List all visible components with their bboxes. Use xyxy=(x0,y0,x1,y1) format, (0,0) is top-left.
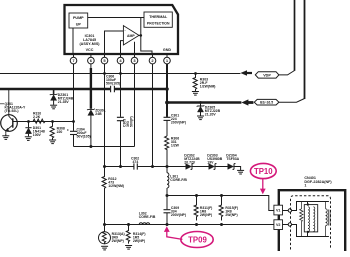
svg-text:V1: V1 xyxy=(276,209,281,213)
resistor R313 circled safety xyxy=(99,225,111,245)
resistor R308 xyxy=(50,122,54,140)
IC301 value label xyxy=(79,34,100,46)
C302 label xyxy=(131,156,139,164)
C304 label xyxy=(77,128,91,139)
svg-text:100V: 100V xyxy=(33,133,42,137)
svg-text:2W(NP): 2W(NP) xyxy=(112,239,124,243)
wire pin1 thick down xyxy=(166,64,168,103)
svg-text:50V(105): 50V(105) xyxy=(106,82,120,86)
test point TP09 xyxy=(181,232,213,248)
svg-text:21.35V: 21.35V xyxy=(58,100,70,104)
inductor L302 on wire224 xyxy=(139,223,150,225)
svg-text:200V(NP): 200V(NP) xyxy=(171,213,186,217)
capacitor C309 xyxy=(164,196,171,225)
wire y=224.5 node V2 net xyxy=(105,224,274,226)
Q301 label xyxy=(0,102,26,113)
svg-text:VDP: VDP xyxy=(263,73,271,77)
R303 label xyxy=(200,78,216,89)
DZ301 label xyxy=(58,93,74,104)
yoke right coil xyxy=(326,209,328,226)
pin 3 circle xyxy=(131,54,138,68)
C309 label xyxy=(171,206,186,217)
flag B1/-16.5 xyxy=(254,99,279,105)
junction L301/wire195 xyxy=(166,194,169,197)
svg-text:CORE-F/B: CORE-F/B xyxy=(139,215,156,219)
svg-text:V2: V2 xyxy=(276,223,281,227)
junction R314/wire224 xyxy=(127,223,130,226)
junction R306-L301/wire166 xyxy=(166,165,169,168)
capacitor C306 plates xyxy=(111,86,115,92)
svg-text:TP09: TP09 xyxy=(188,236,207,245)
wire Q301 collector up to rail xyxy=(8,89,10,115)
wire pin6 thick down xyxy=(90,68,92,89)
ground R313 xyxy=(101,246,108,250)
svg-text:GND: GND xyxy=(163,48,172,52)
wire pin2 down xyxy=(152,68,154,167)
capacitor C303 on pin4 line xyxy=(117,117,124,120)
DZ304 label xyxy=(226,154,239,162)
flag VDP xyxy=(255,72,279,78)
connector pin V2 xyxy=(274,220,283,230)
junction yoke rect bottom xyxy=(307,231,309,233)
ZD301 label xyxy=(95,109,105,117)
wire pin5 to amp inverting input xyxy=(105,31,124,54)
wire y=195 node V1 net xyxy=(167,196,274,211)
ground R308 xyxy=(49,140,56,144)
R314 label xyxy=(133,232,146,243)
svg-text:(TO-92L): (TO-92L) xyxy=(5,109,19,113)
capacitor C301 on pin1 chain xyxy=(164,103,171,137)
junction base/pin7 xyxy=(72,120,75,123)
capacitor C304 on pin7 line xyxy=(67,122,77,147)
test point TP10 xyxy=(250,163,276,178)
svg-text:1: 1 xyxy=(304,184,306,188)
wire pin4 down xyxy=(120,68,122,167)
capacitor C306 label xyxy=(106,75,120,86)
yoke coil left column xyxy=(308,207,310,232)
yoke damping resistor xyxy=(300,202,303,237)
resistor R315 xyxy=(219,196,223,221)
svg-text:B1/-16.5: B1/-16.5 xyxy=(260,101,273,105)
pin 6 circle xyxy=(88,54,95,68)
D301 label xyxy=(33,126,45,137)
junction pin1 / B1 rail xyxy=(165,101,169,105)
svg-text:-: - xyxy=(125,29,126,33)
arrow to B1 xyxy=(241,99,253,105)
thick rail y=89 right part xyxy=(114,88,167,91)
ground R314 xyxy=(125,246,132,250)
junction pin5 / wire73 xyxy=(103,72,106,75)
op-amp AMP triangle xyxy=(123,26,139,45)
svg-text:474: 474 xyxy=(133,160,139,164)
svg-text:TP10: TP10 xyxy=(254,167,273,176)
diode DZ304 xyxy=(228,164,236,170)
R311 label xyxy=(200,206,212,217)
connector CN401 label xyxy=(304,176,332,187)
open terminal circle V1 xyxy=(288,209,291,212)
inductor L301 xyxy=(167,167,169,196)
resistor R311 xyxy=(194,196,198,221)
ground DZ305 xyxy=(197,116,204,120)
ground end of diode chain xyxy=(237,170,244,174)
svg-text:20.77V: 20.77V xyxy=(184,161,196,165)
open terminal circle V2 xyxy=(288,223,291,226)
svg-text:VCC: VCC xyxy=(86,48,94,52)
vertical bus line B1 xyxy=(304,0,306,99)
wire long horizontal net at y=73 to VDP xyxy=(0,73,240,75)
TP10 arrow xyxy=(260,179,266,195)
svg-text:1/2W(NM): 1/2W(NM) xyxy=(200,85,216,89)
yoke coil right column xyxy=(313,207,315,232)
diode DZ303 xyxy=(209,164,217,170)
diode D301 xyxy=(25,122,31,137)
pin 7 circle xyxy=(70,54,77,68)
wire pin3 up to amp xyxy=(134,42,136,54)
svg-text:CORE-F/B: CORE-F/B xyxy=(170,178,187,182)
pin 5 circle xyxy=(101,54,108,68)
wire pump-up to thermal protection xyxy=(88,17,144,19)
R315 label xyxy=(225,206,238,217)
transistor Q301 xyxy=(1,115,18,134)
R313 label xyxy=(112,232,125,243)
junction pin4 / wire73 xyxy=(119,72,122,75)
diode DZ302 xyxy=(186,164,194,170)
pin 2 circle xyxy=(149,54,156,68)
wire y=166.5 main lower net xyxy=(105,167,241,171)
stub rail to rect top xyxy=(307,202,309,205)
pump up block xyxy=(69,13,88,28)
op-amp IC301 LA7845 block outline xyxy=(65,5,179,54)
svg-text:2.2K: 2.2K xyxy=(33,115,41,119)
svg-text:1/2W: 1/2W xyxy=(171,144,180,148)
ground DZ301 xyxy=(50,105,57,109)
svg-text:TSF53A: TSF53A xyxy=(226,157,239,161)
resistor R310 on base line xyxy=(33,119,45,123)
svg-text:PUMP: PUMP xyxy=(73,16,84,20)
L301 label xyxy=(170,175,187,183)
wire y=146.5 C304 to pin3 xyxy=(74,146,135,148)
svg-text:200V(NP): 200V(NP) xyxy=(171,121,186,125)
svg-text:UP: UP xyxy=(76,23,82,27)
svg-text:19V: 19V xyxy=(207,161,214,165)
zener DZ301 under rail xyxy=(50,89,58,105)
DZ305 label xyxy=(205,106,221,117)
wire Q301 base line y=121.7 xyxy=(13,121,74,123)
junction ZD301 / wire146 xyxy=(89,145,92,148)
svg-text:2W(NP): 2W(NP) xyxy=(133,239,145,243)
C301 label xyxy=(171,114,186,125)
svg-text:2W(NP): 2W(NP) xyxy=(200,213,212,217)
junction R311/wire195 xyxy=(195,194,198,197)
resistor R306 xyxy=(165,136,169,167)
ground D301 xyxy=(25,137,32,141)
junction R311/wire224 xyxy=(195,223,198,226)
svg-text:(ASSY-M/S): (ASSY-M/S) xyxy=(79,42,100,46)
junction pin2/wire166 xyxy=(151,165,154,168)
svg-text:2W(NP): 2W(NP) xyxy=(225,213,237,217)
junction rail / pin1 line xyxy=(165,87,169,91)
svg-text:THERMAL: THERMAL xyxy=(149,15,168,19)
zener ZD301 under pin6 rail xyxy=(87,89,95,147)
resistor R312 xyxy=(102,167,106,225)
svg-text:24B: 24B xyxy=(95,112,102,116)
pin 4 circle xyxy=(117,54,124,68)
junction amp output xyxy=(140,34,143,37)
wire VDP flag to vertical bus xyxy=(279,71,295,75)
ground R303 xyxy=(192,90,199,95)
wire pin5 down xyxy=(104,68,106,167)
wire B1 flag to vertical bus xyxy=(279,99,305,103)
wire V1 to yoke xyxy=(283,202,329,211)
arrow to VDP xyxy=(240,70,252,76)
wire pin4 to amp non-inverting input xyxy=(121,41,124,54)
junction R315/wire224 xyxy=(220,223,223,226)
svg-text:DGF-2282A(NF): DGF-2282A(NF) xyxy=(304,180,332,184)
resistor R303 xyxy=(193,74,197,91)
svg-text:PROTECTION: PROTECTION xyxy=(147,22,170,26)
capacitor C302 series on wire166 xyxy=(134,163,137,169)
thick rail y=89 left part xyxy=(0,88,110,91)
DZ302 label xyxy=(184,154,200,165)
svg-text:50V(P): 50V(P) xyxy=(130,116,134,127)
stub rails to right coil xyxy=(325,202,327,237)
svg-text:AMP: AMP xyxy=(127,34,135,38)
yoke winding rectangle xyxy=(304,205,317,232)
svg-text:220: 220 xyxy=(57,130,63,134)
resistor R314 xyxy=(126,225,130,244)
junction base/D301 xyxy=(27,120,30,123)
thick rail B1 y=102.5 xyxy=(166,101,241,104)
R308 label xyxy=(57,127,65,135)
wire pin7 down xyxy=(73,68,75,122)
junction base/R308 xyxy=(51,120,54,123)
ground Q301 emitter xyxy=(2,134,9,140)
svg-text:1/2W(NM): 1/2W(NM) xyxy=(108,184,124,188)
pin 1 circle xyxy=(164,54,171,64)
wire V2 to yoke xyxy=(283,225,329,237)
junction C309/wire224 xyxy=(166,223,169,226)
wire amp output node xyxy=(139,18,152,55)
junction B1 rail / DZ305 xyxy=(199,101,202,104)
connector pin V1 xyxy=(274,205,283,215)
wire pump-up down to pin 7 xyxy=(72,28,74,54)
connector CN401 box xyxy=(279,190,345,251)
vertical bus line VDP xyxy=(294,0,296,71)
dashed yoke enclosure xyxy=(291,196,331,250)
junction R315/wire195 xyxy=(220,194,223,197)
R310 label xyxy=(33,112,41,120)
zener DZ305 xyxy=(197,103,205,116)
R306 label xyxy=(171,137,180,148)
L302 label xyxy=(139,211,156,219)
svg-text:21.20V: 21.20V xyxy=(205,113,217,117)
junction wire73 / R303 xyxy=(194,72,197,75)
junction pin4/wire166 xyxy=(119,165,122,168)
junction R312/wire224 xyxy=(103,223,106,226)
stub rect bottom to rail xyxy=(307,232,309,237)
junction yoke rect top xyxy=(307,203,309,205)
wire pin3 down xyxy=(134,68,136,147)
DZ303 label xyxy=(207,154,222,165)
svg-text:50V(105): 50V(105) xyxy=(77,135,91,139)
junction pin5/wire166 xyxy=(103,165,106,168)
R312 label xyxy=(108,177,124,188)
thermal protection block xyxy=(144,12,172,27)
TP09 arrow xyxy=(164,226,183,239)
C303 rotated label xyxy=(123,116,134,127)
yoke right coil core lines xyxy=(328,210,330,226)
